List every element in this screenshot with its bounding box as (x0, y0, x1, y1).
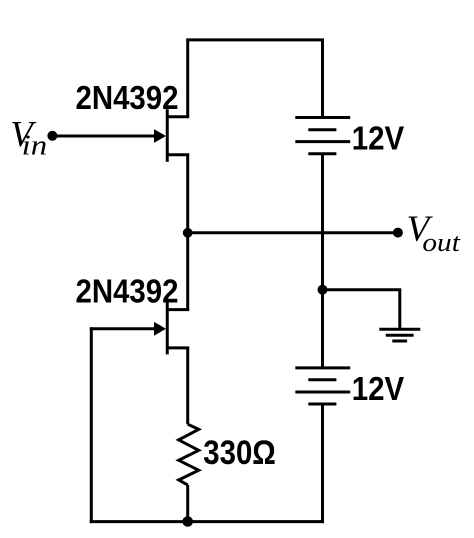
wire Vout line (188, 231, 398, 234)
wire B2 to bottom rail (321, 404, 324, 523)
transistor Q2 2N4392 (154, 302, 189, 354)
wire resistor R1 to bottom rail (186, 485, 189, 522)
wire ground branch (323, 290, 400, 330)
label V_out (407, 209, 461, 257)
node Vout dot (393, 228, 403, 238)
wire node A to Q2 drain (186, 233, 189, 310)
wire gate Q2 horizontal (90, 327, 156, 330)
wire top rail (188, 40, 323, 118)
wire gate Q2 left vertical to bottom rail (90, 327, 93, 523)
svg-text:330Ω: 330Ω (203, 434, 275, 472)
svg-text:2N4392: 2N4392 (76, 272, 179, 309)
label V_in (10, 114, 47, 161)
wire Q2 source to resistor R1 (186, 348, 189, 424)
transistor Q1 2N4392 (154, 109, 189, 162)
wire B1 to ground node (321, 154, 324, 290)
svg-text:2N4392: 2N4392 (76, 79, 179, 116)
node ground junction dot (318, 285, 328, 295)
wire Q1 source to node A (186, 155, 189, 233)
battery B1 12V (295, 118, 350, 154)
svg-text:in: in (22, 131, 48, 162)
svg-text:out: out (422, 227, 460, 257)
resistor R1 330ohm (179, 424, 199, 485)
wire ground node to battery B2 (321, 290, 324, 368)
node Vin dot (47, 131, 57, 141)
svg-text:12V: 12V (352, 119, 405, 156)
node bottom junction dot (182, 516, 193, 527)
wire gate Q1 from Vin (52, 135, 156, 138)
battery B2 12V (295, 368, 350, 404)
ground (379, 329, 420, 341)
wire bottom rail (90, 520, 324, 523)
node A junction dot (183, 228, 193, 238)
svg-text:12V: 12V (352, 370, 405, 407)
